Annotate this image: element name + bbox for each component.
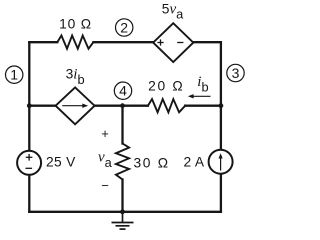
minus inside 5va (177, 42, 183, 44)
svg-text:30 Ω: 30 Ω (133, 155, 169, 170)
junction dot right-middle (219, 103, 224, 108)
svg-text:2 A: 2 A (184, 154, 205, 169)
current source 2A circle (209, 150, 233, 174)
arrow inside 3ib (62, 104, 88, 108)
svg-text:+: + (101, 126, 109, 141)
plus inside 25V (26, 154, 33, 161)
node 3 (227, 64, 244, 81)
wire bottom (29, 211, 221, 213)
wire middle-center segment (95, 105, 148, 107)
wire top-middle segment (93, 41, 153, 43)
svg-text:25 V: 25 V (46, 155, 76, 170)
arrow ib (188, 94, 211, 98)
wire middle-right segment (185, 105, 221, 107)
minus inside 25V (26, 167, 33, 169)
node 2 (116, 19, 133, 36)
node 4 (114, 82, 131, 99)
svg-text:10 Ω: 10 Ω (59, 17, 92, 32)
resistor R 30ohm (116, 144, 129, 180)
plus inside 5va (157, 39, 163, 45)
svg-text:−: − (101, 178, 109, 193)
wire middle-left segment (29, 105, 55, 107)
svg-text:ib: ib (197, 74, 208, 95)
svg-text:3ib: 3ib (66, 67, 85, 87)
wire node4 down upper (121, 106, 123, 144)
wire right vertical upper (220, 42, 222, 150)
junction dot left-middle (27, 103, 32, 108)
svg-text:20 Ω: 20 Ω (148, 78, 184, 93)
junction dot node4 (120, 103, 125, 108)
node 1 (6, 66, 23, 83)
wire left vertical upper (28, 42, 30, 151)
junction dot bottom-ground (120, 209, 125, 214)
svg-text:2: 2 (120, 20, 128, 36)
wire top-right segment (193, 41, 221, 43)
svg-text:5va: 5va (162, 1, 184, 21)
wire left vertical lower (28, 175, 30, 212)
ground (112, 212, 134, 229)
wire right vertical lower (220, 174, 222, 212)
wire node4 down lower (121, 180, 123, 212)
svg-text:4: 4 (119, 83, 127, 99)
dependent source 5va diamond (153, 23, 193, 62)
resistor R 20ohm (148, 99, 185, 112)
svg-text:va: va (98, 150, 113, 171)
voltage source 25V circle (17, 151, 41, 175)
svg-text:1: 1 (10, 67, 18, 83)
dependent source 3ib diamond (56, 87, 95, 124)
svg-text:3: 3 (232, 65, 240, 81)
resistor R 10ohm (57, 36, 93, 49)
arrow inside 2A (219, 153, 223, 170)
wire top-left segment (29, 41, 57, 43)
